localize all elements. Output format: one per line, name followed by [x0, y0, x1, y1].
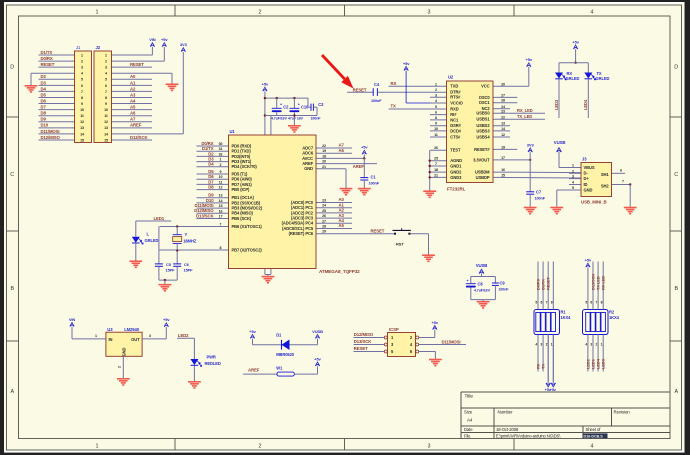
svg-text:C10: C10	[301, 105, 309, 110]
svg-text:RESET#: RESET#	[474, 147, 490, 152]
svg-text:11: 11	[219, 180, 223, 184]
svg-text:D16-DCB.S: D16-DCB.S	[584, 434, 604, 438]
svg-text:3: 3	[541, 343, 543, 347]
svg-text:Size: Size	[464, 410, 473, 415]
svg-text:13: 13	[80, 126, 84, 130]
svg-text:4: 4	[585, 343, 587, 347]
svg-text:D1: D1	[276, 333, 282, 338]
svg-text:AREF: AREF	[248, 367, 260, 372]
svg-text:3: 3	[435, 93, 437, 97]
svg-text:Title: Title	[465, 394, 474, 400]
svg-text:C7: C7	[536, 190, 542, 195]
svg-text:D13/SCK: D13/SCK	[130, 135, 148, 140]
svg-text:15: 15	[501, 173, 505, 177]
svg-text:USBS3: USBS3	[476, 128, 490, 133]
svg-text:26: 26	[322, 214, 326, 218]
svg-text:11: 11	[104, 114, 108, 118]
svg-text:5: 5	[105, 78, 107, 82]
svg-text:2: 2	[259, 444, 262, 450]
svg-text:RESET: RESET	[354, 346, 368, 351]
svg-text:2: 2	[435, 88, 437, 92]
svg-text:3V3: 3V3	[527, 142, 535, 147]
svg-text:D11/MOSI: D11/MOSI	[442, 339, 461, 344]
svg-text:D: D	[10, 65, 14, 71]
svg-text:VBUS: VBUS	[584, 165, 595, 170]
svg-text:AREF: AREF	[353, 164, 365, 169]
svg-text:1: 1	[435, 82, 437, 86]
svg-text:LM2940: LM2940	[124, 327, 140, 332]
svg-text:D7: D7	[41, 105, 47, 110]
svg-text:TX_LED: TX_LED	[517, 114, 532, 119]
svg-text:100nF: 100nF	[311, 116, 322, 120]
svg-text:J2: J2	[96, 45, 101, 50]
svg-text:+5v: +5v	[161, 37, 168, 42]
svg-text:VUSB: VUSB	[554, 140, 566, 145]
svg-text:R1: R1	[561, 310, 567, 315]
svg-text:A4: A4	[467, 418, 473, 423]
svg-text:D13/SCK: D13/SCK	[354, 339, 372, 344]
svg-text:18: 18	[434, 168, 438, 172]
svg-text:15PF: 15PF	[184, 268, 194, 273]
svg-text:TX: TX	[391, 104, 397, 109]
svg-text:RESET: RESET	[353, 87, 367, 92]
svg-text:+5v: +5v	[163, 317, 170, 322]
svg-text:C1: C1	[371, 175, 377, 180]
svg-text:1: 1	[95, 334, 97, 338]
svg-text:SH1: SH1	[601, 172, 609, 177]
svg-text:D10: D10	[41, 123, 49, 128]
svg-text:RESET: RESET	[130, 62, 144, 67]
svg-text:CTS#: CTS#	[450, 134, 461, 139]
svg-text:+5v: +5v	[249, 329, 256, 334]
svg-text:IN: IN	[109, 337, 113, 342]
svg-text:1: 1	[220, 158, 222, 162]
svg-text:REDLED: REDLED	[205, 361, 221, 366]
svg-text:10: 10	[219, 175, 223, 179]
svg-text:GND1: GND1	[450, 163, 462, 168]
svg-text:27: 27	[322, 219, 326, 223]
svg-text:3: 3	[590, 343, 592, 347]
svg-text:VCC: VCC	[481, 84, 489, 89]
svg-text:RST: RST	[396, 242, 404, 247]
svg-text:RX_LED: RX_LED	[517, 108, 533, 113]
svg-text:9: 9	[220, 170, 222, 174]
svg-text:D4: D4	[208, 162, 214, 167]
svg-text:RESET: RESET	[546, 277, 551, 290]
svg-text:ID: ID	[584, 182, 588, 187]
svg-text:GRLED: GRLED	[145, 238, 159, 243]
svg-text:16: 16	[501, 168, 505, 172]
svg-text:18: 18	[322, 154, 326, 158]
svg-text:24: 24	[501, 105, 505, 109]
svg-text:VIN: VIN	[69, 317, 76, 322]
svg-text:+5v: +5v	[314, 356, 321, 361]
svg-text:D12/MISO: D12/MISO	[41, 135, 61, 140]
svg-text:ICSP: ICSP	[389, 327, 399, 332]
svg-text:+5v: +5v	[403, 61, 410, 66]
svg-text:USBS0: USBS0	[476, 111, 490, 116]
svg-text:VUSB: VUSB	[476, 263, 488, 268]
svg-text:2: 2	[572, 169, 574, 173]
svg-text:10: 10	[80, 108, 84, 112]
svg-text:25: 25	[434, 157, 438, 161]
svg-text:C4: C4	[374, 82, 380, 87]
svg-text:D12/MISO: D12/MISO	[354, 332, 374, 337]
svg-text:RESET: RESET	[41, 62, 55, 67]
svg-text:USBS4: USBS4	[476, 134, 490, 139]
svg-text:D11/MOSI: D11/MOSI	[41, 129, 60, 134]
svg-text:2: 2	[118, 366, 122, 368]
svg-text:C: C	[10, 172, 14, 178]
svg-text:VUSB: VUSB	[312, 329, 323, 334]
svg-text:7: 7	[596, 300, 598, 304]
svg-text:GND: GND	[304, 166, 313, 171]
svg-text:6: 6	[590, 300, 592, 304]
svg-text:16MHZ: 16MHZ	[183, 238, 197, 243]
svg-text:6: 6	[81, 84, 83, 88]
svg-text:TX: TX	[541, 364, 546, 369]
svg-text:A5: A5	[339, 223, 345, 228]
svg-text:15PF: 15PF	[166, 268, 176, 273]
svg-text:D9: D9	[41, 117, 47, 122]
svg-text:5: 5	[81, 78, 83, 82]
svg-text:A5: A5	[130, 105, 136, 110]
svg-text:A4: A4	[130, 98, 136, 103]
svg-text:C8: C8	[478, 281, 484, 286]
svg-text:3: 3	[572, 175, 574, 179]
svg-text:27: 27	[501, 93, 505, 97]
svg-text:AREF: AREF	[130, 123, 142, 128]
svg-text:Number: Number	[498, 410, 514, 415]
svg-text:4: 4	[591, 444, 594, 450]
svg-text:3.3VOUT: 3.3VOUT	[473, 157, 490, 162]
svg-text:A1: A1	[130, 80, 136, 85]
svg-text:GRLED: GRLED	[596, 76, 610, 81]
svg-text:RX: RX	[391, 81, 397, 86]
svg-text:15: 15	[80, 138, 84, 142]
svg-text:1: 1	[96, 10, 99, 16]
svg-text:D2: D2	[41, 74, 47, 79]
svg-text:9: 9	[435, 122, 437, 126]
svg-text:30: 30	[219, 142, 223, 146]
svg-text:PB6 (X1/TOSC1): PB6 (X1/TOSC1)	[232, 224, 263, 229]
svg-text:3: 3	[105, 66, 107, 70]
svg-text:14: 14	[501, 127, 505, 131]
svg-text:D6: D6	[41, 98, 47, 103]
svg-text:File: File	[464, 434, 471, 439]
svg-text:13: 13	[501, 122, 505, 126]
svg-text:U2: U2	[448, 75, 454, 80]
svg-text:USBDM: USBDM	[475, 170, 490, 175]
svg-text:GRLED: GRLED	[566, 76, 580, 81]
svg-text:GND3: GND3	[450, 175, 462, 180]
svg-text:1KX4: 1KX4	[561, 315, 572, 320]
svg-text:7: 7	[546, 300, 548, 304]
svg-text:USBDP: USBDP	[476, 175, 490, 180]
svg-text:LED1: LED1	[154, 216, 165, 221]
svg-text:28: 28	[501, 99, 505, 103]
svg-text:OSC1: OSC1	[479, 100, 491, 105]
svg-text:D0/RX: D0/RX	[41, 56, 53, 61]
svg-text:Revision: Revision	[614, 410, 631, 415]
svg-text:LED2: LED2	[178, 333, 189, 338]
svg-text:8: 8	[551, 300, 553, 304]
svg-text:+: +	[467, 279, 469, 283]
svg-text:4: 4	[81, 72, 83, 76]
svg-text:USBS1: USBS1	[476, 117, 490, 122]
svg-text:5: 5	[572, 186, 574, 190]
svg-text:3V3: 3V3	[180, 42, 188, 47]
svg-text:2: 2	[220, 163, 222, 167]
svg-text:47uF 16V: 47uF 16V	[288, 116, 304, 120]
svg-text:RI#: RI#	[450, 112, 457, 117]
svg-text:8: 8	[601, 300, 603, 304]
svg-text:1KX4: 1KX4	[609, 315, 620, 320]
svg-text:17: 17	[219, 215, 223, 219]
svg-text:GND: GND	[122, 347, 127, 356]
svg-text:B: B	[674, 286, 678, 292]
svg-text:12: 12	[80, 120, 84, 124]
svg-text:5: 5	[535, 300, 537, 304]
svg-text:PWR: PWR	[207, 355, 216, 360]
svg-text:U3: U3	[107, 327, 113, 332]
svg-text:C9: C9	[500, 280, 506, 285]
svg-text:B: B	[10, 286, 14, 292]
svg-text:8: 8	[435, 116, 437, 120]
svg-text:D13/SCK: D13/SCK	[196, 213, 214, 218]
svg-text:17: 17	[501, 156, 505, 160]
svg-text:24: 24	[322, 204, 326, 208]
svg-text:4: 4	[572, 181, 574, 185]
svg-text:C: C	[674, 172, 678, 178]
svg-text:C2: C2	[283, 105, 289, 110]
svg-text:2: 2	[596, 343, 598, 347]
svg-text:OUT: OUT	[131, 337, 140, 342]
svg-text:22: 22	[322, 144, 326, 148]
svg-text:1: 1	[105, 53, 107, 57]
svg-text:8: 8	[105, 96, 107, 100]
svg-text:D+: D+	[584, 176, 590, 181]
svg-text:11: 11	[434, 133, 438, 137]
svg-text:U1: U1	[230, 129, 236, 134]
svg-text:LED3: LED3	[601, 358, 606, 369]
svg-text:7: 7	[435, 162, 437, 166]
svg-text:PB5 (SCK): PB5 (SCK)	[232, 216, 252, 221]
svg-text:100nF: 100nF	[371, 99, 382, 103]
svg-text:2: 2	[105, 59, 107, 63]
svg-text:1: 1	[81, 53, 83, 57]
svg-text:Sheet of: Sheet of	[586, 427, 602, 432]
svg-text:RX LED: RX LED	[601, 276, 606, 290]
svg-text:USB_MINI_B: USB_MINI_B	[581, 200, 607, 205]
svg-text:R2: R2	[609, 310, 615, 315]
svg-text:4.7uF/16V: 4.7uF/16V	[271, 116, 288, 120]
svg-text:A2: A2	[130, 86, 136, 91]
svg-text:D: D	[674, 65, 678, 71]
svg-text:+5v: +5v	[262, 82, 269, 87]
svg-text:1: 1	[551, 343, 553, 347]
svg-text:15: 15	[219, 204, 223, 208]
svg-text:Date: Date	[464, 427, 473, 432]
svg-text:2: 2	[259, 10, 262, 16]
svg-text:+5v: +5v	[361, 145, 368, 150]
svg-text:LED4: LED4	[583, 99, 588, 110]
svg-text:100nF: 100nF	[535, 197, 546, 201]
svg-text:32: 32	[219, 152, 223, 156]
svg-text:D4: D4	[41, 86, 47, 91]
svg-text:PB0 (ICP): PB0 (ICP)	[232, 187, 250, 192]
svg-text:20: 20	[501, 82, 505, 86]
svg-text:28: 28	[322, 225, 326, 229]
svg-text:23: 23	[501, 109, 505, 113]
svg-text:31: 31	[219, 147, 223, 151]
svg-text:19: 19	[322, 149, 326, 153]
svg-text:16: 16	[219, 209, 223, 213]
svg-text:D3: D3	[41, 80, 47, 85]
svg-text:GND: GND	[584, 187, 593, 192]
svg-text:A6: A6	[339, 148, 345, 153]
svg-text:6: 6	[435, 111, 437, 115]
svg-text:12: 12	[219, 186, 223, 190]
svg-text:PB7 (X2/TOSC2): PB7 (X2/TOSC2)	[232, 247, 263, 252]
svg-text:1: 1	[601, 343, 603, 347]
svg-text:7: 7	[81, 90, 83, 94]
svg-text:MBR0520: MBR0520	[276, 352, 295, 357]
svg-text:SH2: SH2	[601, 183, 609, 188]
svg-text:A7: A7	[130, 117, 136, 122]
svg-text:9: 9	[105, 102, 107, 106]
svg-text:4: 4	[105, 72, 107, 76]
svg-text:PD4 (XCK/T0): PD4 (XCK/T0)	[232, 164, 258, 169]
svg-text:14: 14	[80, 132, 84, 136]
svg-text:4: 4	[435, 99, 437, 103]
svg-text:10: 10	[434, 127, 438, 131]
svg-text:+5v: +5v	[526, 57, 533, 62]
svg-text:1: 1	[572, 164, 574, 168]
svg-text:A: A	[674, 389, 678, 395]
svg-text:A: A	[10, 389, 14, 395]
svg-text:GND2: GND2	[450, 170, 462, 175]
svg-text:6: 6	[105, 84, 107, 88]
svg-text:W1: W1	[276, 366, 283, 371]
svg-text:7: 7	[105, 90, 107, 94]
svg-text:21: 21	[322, 165, 326, 169]
svg-text:C3: C3	[318, 102, 324, 107]
svg-text:5: 5	[585, 300, 587, 304]
svg-text:RTS#: RTS#	[450, 95, 461, 100]
svg-text:4: 4	[535, 343, 537, 347]
svg-text:19: 19	[501, 145, 505, 149]
svg-text:100nF: 100nF	[369, 182, 380, 186]
svg-text:E:\print\AVR\Arduino-arduino: E:\print\AVR\Arduino-arduino NG\DS\	[496, 434, 561, 439]
svg-text:3: 3	[428, 10, 431, 16]
svg-text:DCD#: DCD#	[450, 128, 462, 133]
svg-text:A6: A6	[130, 111, 136, 116]
svg-text:(RESET) PC6: (RESET) PC6	[289, 231, 314, 236]
svg-text:29: 29	[322, 230, 326, 234]
svg-text:13: 13	[219, 194, 223, 198]
svg-text:NC1: NC1	[450, 117, 459, 122]
svg-text:+5v: +5v	[432, 320, 439, 325]
svg-text:VCCIO: VCCIO	[450, 100, 463, 105]
svg-text:TEST: TEST	[450, 148, 461, 153]
svg-text:4.7uF/16V: 4.7uF/16V	[474, 288, 491, 292]
svg-text:VIN: VIN	[149, 37, 156, 42]
svg-text:12: 12	[501, 133, 505, 137]
svg-text:+: +	[280, 102, 282, 106]
svg-text:14: 14	[104, 132, 108, 136]
svg-text:21: 21	[434, 173, 438, 177]
svg-text:3: 3	[81, 66, 83, 70]
svg-text:+5v: +5v	[550, 388, 557, 392]
svg-text:J3: J3	[582, 157, 587, 162]
svg-text:6: 6	[620, 169, 622, 173]
svg-text:2: 2	[81, 59, 83, 63]
svg-text:D8: D8	[208, 185, 214, 190]
svg-text:D5: D5	[41, 92, 47, 97]
svg-text:D1/TX: D1/TX	[41, 50, 53, 55]
svg-text:6: 6	[541, 300, 543, 304]
svg-text:AGND: AGND	[450, 158, 462, 163]
svg-text:4: 4	[591, 10, 594, 16]
svg-text:+5v: +5v	[585, 258, 592, 263]
svg-text:+: +	[298, 102, 300, 106]
svg-text:7: 7	[622, 180, 624, 184]
svg-text:RXD: RXD	[450, 106, 458, 111]
svg-text:10: 10	[104, 108, 108, 112]
svg-text:3: 3	[149, 334, 151, 338]
svg-text:11: 11	[80, 114, 84, 118]
svg-text:1: 1	[96, 444, 99, 450]
svg-text:Y: Y	[185, 232, 188, 237]
svg-text:14: 14	[219, 199, 223, 203]
svg-text:TXD: TXD	[450, 84, 458, 89]
svg-text:22: 22	[501, 115, 505, 119]
svg-text:A3: A3	[130, 92, 136, 97]
svg-text:20: 20	[322, 160, 326, 164]
svg-text:+5v: +5v	[572, 39, 579, 44]
svg-text:2: 2	[546, 343, 548, 347]
svg-text:8: 8	[220, 246, 222, 250]
svg-text:5: 5	[435, 105, 437, 109]
svg-text:8: 8	[81, 96, 83, 100]
svg-text:15: 15	[104, 138, 108, 142]
svg-text:13: 13	[104, 126, 108, 130]
svg-text:D8: D8	[41, 111, 47, 116]
svg-text:3: 3	[428, 444, 431, 450]
svg-text:26: 26	[434, 146, 438, 150]
svg-text:A0: A0	[130, 74, 136, 79]
svg-text:18-Oct-2008: 18-Oct-2008	[496, 427, 519, 432]
svg-text:LED3: LED3	[554, 99, 559, 110]
svg-text:12: 12	[104, 120, 108, 124]
svg-text:RESET: RESET	[371, 229, 385, 234]
svg-text:23: 23	[322, 199, 326, 203]
svg-text:25: 25	[322, 209, 326, 213]
svg-text:7: 7	[220, 223, 222, 227]
svg-text:100nF: 100nF	[499, 287, 510, 291]
svg-text:FT232RL: FT232RL	[447, 187, 466, 192]
svg-text:OSC0: OSC0	[479, 95, 491, 100]
svg-text:ATMEGA8_TQFP32: ATMEGA8_TQFP32	[319, 269, 360, 274]
svg-text:9: 9	[81, 102, 83, 106]
